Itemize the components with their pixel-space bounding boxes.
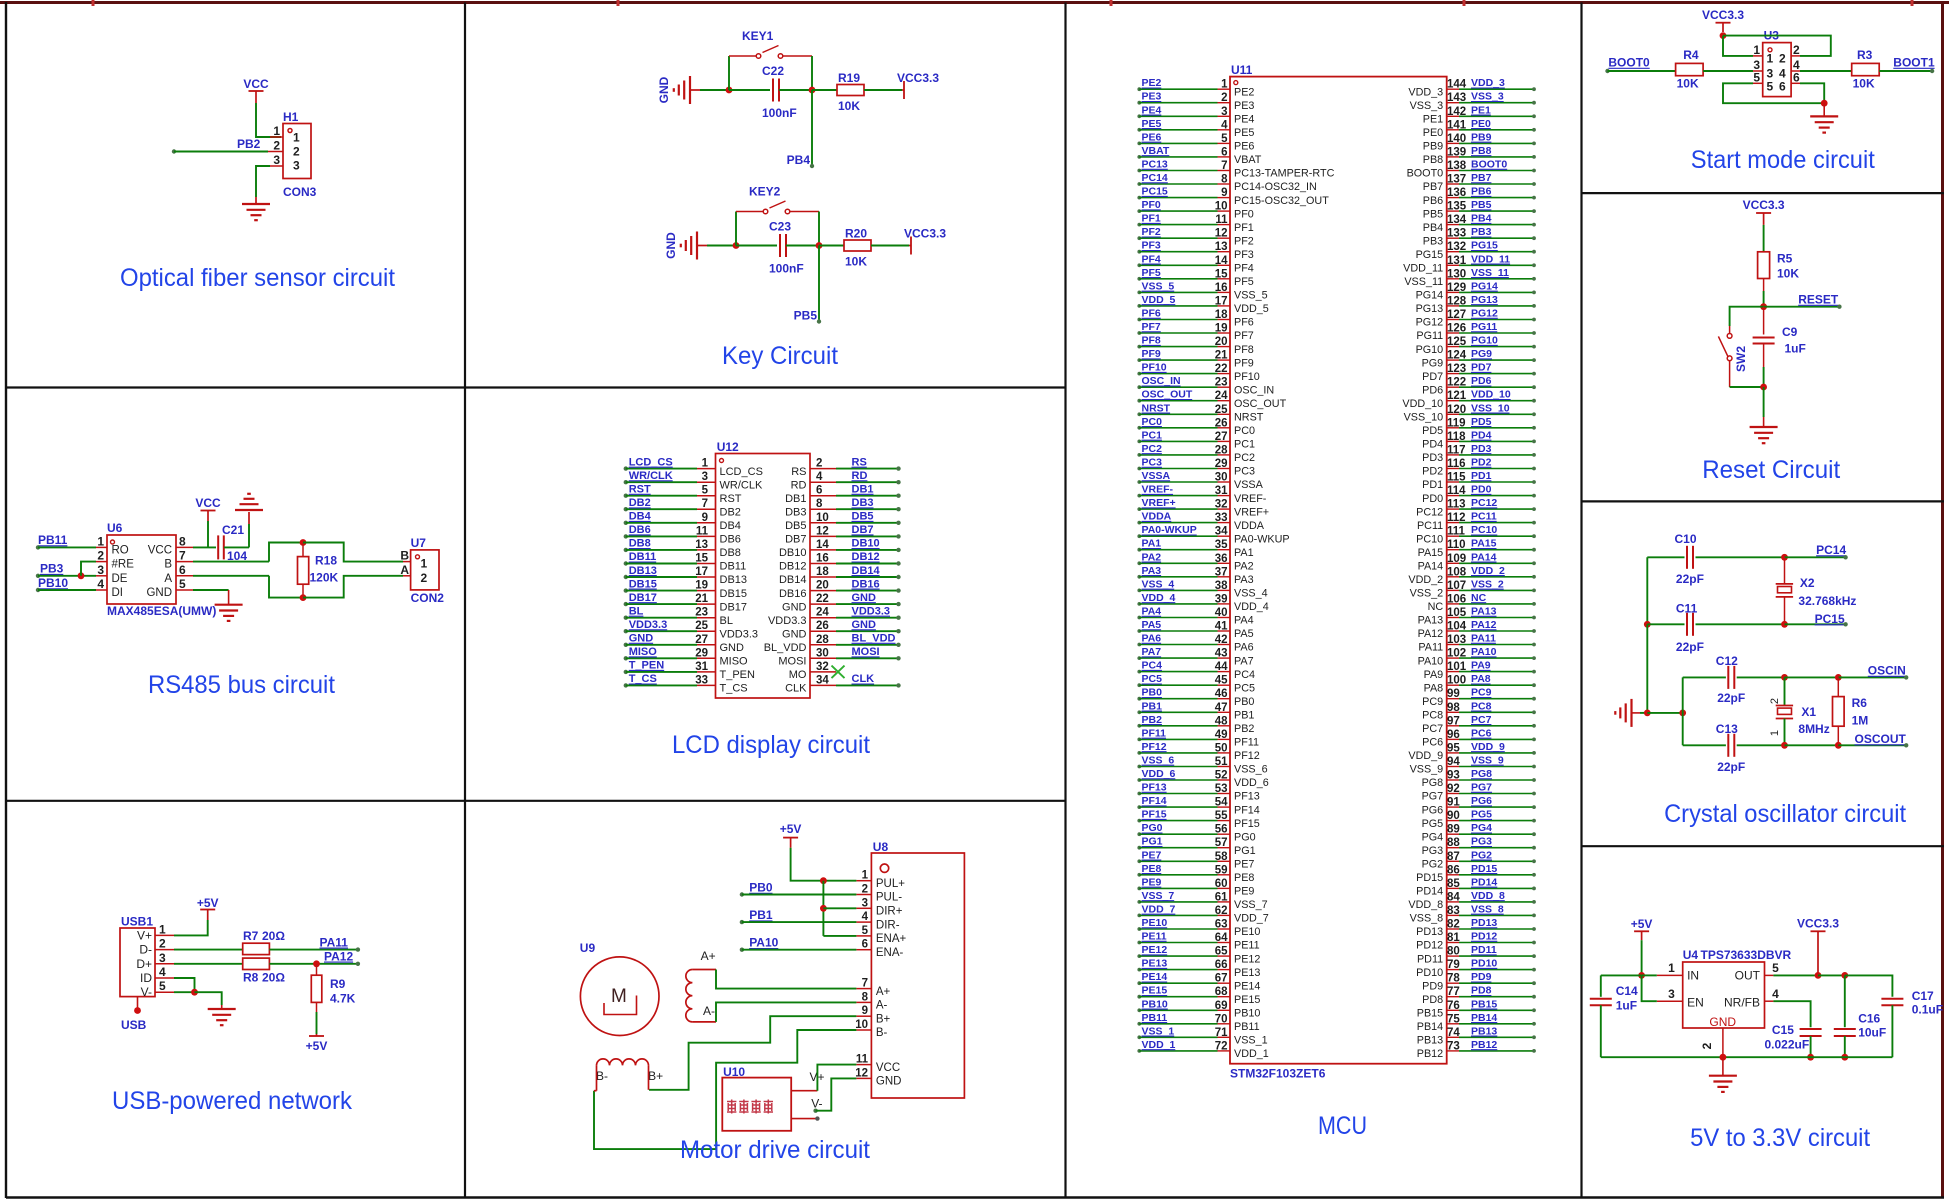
wire pin1 V+ to +5V bbox=[174, 920, 208, 935]
svg-text:B-: B- bbox=[596, 1069, 608, 1083]
svg-text:VCC3.3: VCC3.3 bbox=[904, 227, 946, 241]
svg-text:+5V: +5V bbox=[306, 1039, 328, 1053]
svg-text:1: 1 bbox=[702, 458, 709, 470]
svg-text:10: 10 bbox=[855, 1019, 868, 1031]
svg-text:PC4: PC4 bbox=[1234, 669, 1255, 681]
svg-text:R4: R4 bbox=[1683, 48, 1699, 62]
svg-text:VDD_3: VDD_3 bbox=[1408, 86, 1443, 98]
svg-text:Reset Circuit: Reset Circuit bbox=[1702, 456, 1840, 484]
svg-text:103: 103 bbox=[1447, 634, 1466, 646]
svg-text:34: 34 bbox=[1215, 526, 1228, 538]
svg-text:98: 98 bbox=[1447, 702, 1460, 714]
svg-text:137: 137 bbox=[1447, 174, 1466, 186]
svg-text:102: 102 bbox=[1447, 648, 1466, 660]
svg-text:GND: GND bbox=[852, 592, 877, 604]
svg-text:PC7: PC7 bbox=[1471, 714, 1492, 726]
svg-text:BL_VDD: BL_VDD bbox=[764, 642, 807, 654]
svg-text:PA14: PA14 bbox=[1471, 551, 1497, 563]
svg-text:32: 32 bbox=[1215, 499, 1228, 511]
svg-text:PB5: PB5 bbox=[1423, 208, 1443, 220]
svg-text:PF3: PF3 bbox=[1234, 249, 1254, 261]
junction GND bbox=[1720, 1054, 1727, 1061]
U11 pin 101 PA9 bbox=[1447, 671, 1459, 673]
svg-text:OSCOUT: OSCOUT bbox=[1855, 732, 1907, 746]
svg-text:PD10: PD10 bbox=[1471, 958, 1497, 970]
svg-text:38: 38 bbox=[1215, 580, 1228, 592]
svg-text:VDD_2: VDD_2 bbox=[1471, 565, 1505, 577]
svg-text:RS485 bus circuit: RS485 bus circuit bbox=[148, 671, 335, 699]
svg-text:5: 5 bbox=[1772, 961, 1779, 975]
svg-text:28: 28 bbox=[816, 634, 829, 646]
svg-text:58: 58 bbox=[1215, 851, 1228, 863]
left rail to C14 bbox=[1601, 974, 1642, 976]
svg-text:PG0: PG0 bbox=[1234, 831, 1256, 843]
svg-text:33: 33 bbox=[1215, 512, 1228, 524]
wire junction to resistor bbox=[819, 245, 844, 247]
svg-text:DB14: DB14 bbox=[852, 565, 881, 577]
svg-text:RD: RD bbox=[791, 479, 807, 491]
U11 pin 77 PD8 bbox=[1447, 996, 1459, 998]
svg-text:VDD_1: VDD_1 bbox=[1142, 1039, 1176, 1051]
junction node bbox=[733, 242, 740, 249]
svg-text:PB2: PB2 bbox=[237, 137, 261, 151]
svg-text:PF4: PF4 bbox=[1142, 253, 1161, 265]
svg-text:VREF-: VREF- bbox=[1234, 493, 1267, 505]
junction ground left bbox=[1644, 710, 1651, 717]
svg-text:MCU: MCU bbox=[1318, 1112, 1367, 1140]
svg-text:Key Circuit: Key Circuit bbox=[722, 342, 838, 370]
svg-text:87: 87 bbox=[1447, 851, 1460, 863]
svg-text:PB2: PB2 bbox=[1234, 723, 1254, 735]
svg-text:CLK: CLK bbox=[852, 673, 875, 685]
svg-text:DB2: DB2 bbox=[720, 507, 741, 519]
svg-text:78: 78 bbox=[1447, 973, 1460, 985]
node RESET wire bbox=[1764, 306, 1840, 308]
svg-text:PB5: PB5 bbox=[1471, 199, 1492, 211]
U11 pin 111 PC10 bbox=[1447, 535, 1459, 537]
svg-text:14: 14 bbox=[816, 539, 829, 551]
svg-text:DB15: DB15 bbox=[720, 588, 748, 600]
svg-text:PB1: PB1 bbox=[749, 908, 773, 922]
svg-text:84: 84 bbox=[1447, 891, 1460, 903]
svg-text:PC0: PC0 bbox=[1234, 425, 1255, 437]
svg-text:A+: A+ bbox=[701, 949, 716, 963]
svg-text:VSS_2: VSS_2 bbox=[1471, 578, 1504, 590]
svg-text:PB14: PB14 bbox=[1417, 1021, 1443, 1033]
svg-text:VDD_4: VDD_4 bbox=[1234, 601, 1269, 613]
wire pin5 loop down bbox=[1723, 83, 1824, 103]
wire VCC3.3 to R5 bbox=[1763, 225, 1765, 251]
svg-text:31: 31 bbox=[695, 661, 708, 673]
U11 pin 97 PC7 bbox=[1447, 725, 1459, 727]
svg-text:U12: U12 bbox=[717, 440, 739, 454]
U11 pin 61 VSS_7 bbox=[1137, 900, 1141, 904]
svg-text:3: 3 bbox=[97, 563, 104, 577]
U11 pin 119 PD5 bbox=[1447, 427, 1459, 429]
svg-text:KEY2: KEY2 bbox=[749, 185, 781, 199]
wire bottom rail to U7 pin A bbox=[303, 576, 403, 598]
svg-text:PA11: PA11 bbox=[320, 935, 349, 949]
U11 pin 38 VSS_4 bbox=[1137, 589, 1141, 593]
svg-text:CON2: CON2 bbox=[411, 591, 445, 605]
wire left rail up to top rail bbox=[269, 543, 303, 562]
svg-text:21: 21 bbox=[1215, 350, 1228, 362]
wire V- to U8 pin12 GND bbox=[813, 1109, 817, 1113]
U11 pin 81 PD12 bbox=[1447, 942, 1459, 944]
svg-text:PG9: PG9 bbox=[1422, 357, 1444, 369]
svg-text:VREF+: VREF+ bbox=[1234, 506, 1269, 518]
svg-text:PG4: PG4 bbox=[1471, 822, 1492, 834]
U11 pin 132 PG15 bbox=[1447, 251, 1459, 253]
svg-text:C10: C10 bbox=[1675, 532, 1697, 546]
node OSCOUT wire bbox=[1838, 744, 1906, 746]
svg-text:PE1: PE1 bbox=[1423, 114, 1443, 126]
svg-text:PE15: PE15 bbox=[1234, 994, 1260, 1006]
svg-text:4: 4 bbox=[1772, 987, 1779, 1001]
U11 pin 20 PF8 bbox=[1137, 345, 1141, 349]
junction R6 top bbox=[1835, 674, 1842, 681]
svg-text:PF2: PF2 bbox=[1234, 235, 1254, 247]
svg-text:PG10: PG10 bbox=[1416, 344, 1444, 356]
svg-text:GND: GND bbox=[782, 601, 807, 613]
svg-text:PF12: PF12 bbox=[1234, 750, 1260, 762]
svg-text:T_PEN: T_PEN bbox=[629, 660, 665, 672]
U11 pin 54 PF14 bbox=[1137, 805, 1141, 809]
svg-text:PC15: PC15 bbox=[1815, 612, 1845, 626]
svg-text:USB-powered network: USB-powered network bbox=[112, 1087, 352, 1115]
svg-text:3: 3 bbox=[159, 951, 166, 965]
svg-text:DB17: DB17 bbox=[629, 592, 657, 604]
svg-text:C22: C22 bbox=[762, 64, 784, 78]
svg-text:PF11: PF11 bbox=[1142, 727, 1167, 739]
U11 pin 73 PB12 bbox=[1447, 1050, 1459, 1052]
svg-text:PB9: PB9 bbox=[1471, 131, 1492, 143]
switch SW2 bbox=[1727, 334, 1732, 339]
svg-text:PB11: PB11 bbox=[38, 533, 68, 547]
svg-text:VDD_4: VDD_4 bbox=[1142, 592, 1176, 604]
svg-text:DB2: DB2 bbox=[629, 497, 651, 509]
svg-text:C17: C17 bbox=[1912, 989, 1934, 1003]
U11 pin 57 PG1 bbox=[1137, 846, 1141, 850]
wire VCC to H1 pin1 bbox=[256, 103, 281, 137]
svg-text:NRST: NRST bbox=[1142, 402, 1171, 414]
U11 pin 89 PG4 bbox=[1447, 833, 1459, 835]
svg-text:126: 126 bbox=[1447, 323, 1466, 335]
svg-text:LCD display circuit: LCD display circuit bbox=[672, 731, 870, 759]
wire junction to resistor bbox=[812, 89, 837, 91]
svg-text:PD9: PD9 bbox=[1422, 980, 1443, 992]
U11 pin 71 VSS_1 bbox=[1137, 1035, 1141, 1039]
U11 pin 22 PF10 bbox=[1137, 372, 1141, 376]
wire SW2 to bottom junction bbox=[1729, 361, 1731, 387]
svg-text:RD: RD bbox=[852, 470, 868, 482]
svg-text:22pF: 22pF bbox=[1676, 572, 1704, 586]
resistor R6 1M bbox=[1837, 677, 1839, 696]
svg-text:DB11: DB11 bbox=[720, 561, 747, 573]
U12 pin 33 T_CS bbox=[624, 683, 628, 687]
U11 pin 50 PF12 bbox=[1137, 751, 1141, 755]
U11 pin 122 PD6 bbox=[1447, 386, 1459, 388]
svg-text:C23: C23 bbox=[769, 220, 791, 234]
svg-text:PB3: PB3 bbox=[40, 562, 64, 576]
svg-text:2: 2 bbox=[816, 458, 822, 470]
svg-text:VSS_8: VSS_8 bbox=[1410, 913, 1444, 925]
svg-text:R8: R8 bbox=[243, 971, 259, 985]
junction C12/C13 rail bbox=[1679, 710, 1686, 717]
svg-text:139: 139 bbox=[1447, 146, 1466, 158]
svg-text:B: B bbox=[164, 559, 172, 571]
resistor R9 4.7K bbox=[316, 964, 318, 975]
svg-text:PB8: PB8 bbox=[1471, 145, 1492, 157]
svg-text:PA5: PA5 bbox=[1234, 628, 1254, 640]
svg-text:VDD_3: VDD_3 bbox=[1471, 77, 1505, 89]
svg-text:1uF: 1uF bbox=[1616, 999, 1637, 1013]
svg-text:PG10: PG10 bbox=[1471, 335, 1498, 347]
svg-text:22pF: 22pF bbox=[1717, 760, 1745, 774]
svg-text:PG2: PG2 bbox=[1471, 849, 1492, 861]
svg-text:VDD_11: VDD_11 bbox=[1471, 253, 1510, 265]
wire resistor to VCC3.3 bbox=[871, 245, 909, 247]
svg-text:88: 88 bbox=[1447, 837, 1460, 849]
wire VCC down to pin8 net bbox=[207, 521, 209, 547]
U11 pin 55 PF15 bbox=[1137, 819, 1141, 823]
svg-text:12: 12 bbox=[1215, 228, 1228, 240]
svg-text:PA15: PA15 bbox=[1418, 547, 1444, 559]
svg-text:100nF: 100nF bbox=[762, 106, 797, 120]
U11 pin 9 PC15 bbox=[1137, 196, 1141, 200]
svg-text:VDD3.3: VDD3.3 bbox=[629, 619, 668, 631]
svg-text:1: 1 bbox=[273, 124, 280, 138]
svg-text:U9: U9 bbox=[580, 941, 596, 955]
svg-text:PB15: PB15 bbox=[1417, 1008, 1443, 1020]
svg-text:PA8: PA8 bbox=[1471, 673, 1491, 685]
wire +5V junction to pin1 bbox=[1642, 974, 1657, 976]
svg-text:PD13: PD13 bbox=[1416, 926, 1443, 938]
svg-text:DB8: DB8 bbox=[720, 547, 741, 559]
svg-text:143: 143 bbox=[1447, 92, 1466, 104]
svg-text:26: 26 bbox=[816, 620, 829, 632]
label DC power (Chinese) bbox=[727, 1100, 736, 1114]
svg-text:U8: U8 bbox=[873, 840, 889, 854]
svg-text:PG3: PG3 bbox=[1422, 845, 1444, 857]
svg-text:PD13: PD13 bbox=[1471, 917, 1497, 929]
svg-text:PB0: PB0 bbox=[1234, 696, 1254, 708]
svg-text:8: 8 bbox=[816, 498, 823, 510]
svg-text:55: 55 bbox=[1215, 810, 1228, 822]
svg-text:BL: BL bbox=[720, 615, 733, 627]
svg-text:CON3: CON3 bbox=[283, 185, 317, 199]
svg-text:PE4: PE4 bbox=[1142, 104, 1162, 116]
svg-text:1: 1 bbox=[1753, 43, 1760, 57]
U11 pin 102 PA10 bbox=[1447, 657, 1459, 659]
svg-text:69: 69 bbox=[1215, 1000, 1228, 1012]
svg-text:26: 26 bbox=[1215, 417, 1228, 429]
ground bbox=[1630, 699, 1632, 727]
svg-text:VSSA: VSSA bbox=[1234, 479, 1264, 491]
svg-text:0.1uF: 0.1uF bbox=[1912, 1003, 1943, 1017]
U11 pin 80 PD11 bbox=[1447, 955, 1459, 957]
svg-text:PG4: PG4 bbox=[1422, 831, 1444, 843]
svg-text:MAX485ESA(UMW): MAX485ESA(UMW) bbox=[107, 604, 216, 618]
svg-text:108: 108 bbox=[1447, 566, 1467, 578]
svg-text:+5V: +5V bbox=[197, 896, 219, 910]
U12 pin 31 T_PEN bbox=[624, 670, 628, 674]
svg-text:VDD_5: VDD_5 bbox=[1142, 294, 1176, 306]
svg-text:OSC_IN: OSC_IN bbox=[1142, 375, 1181, 387]
U11 pin 52 VDD_6 bbox=[1137, 778, 1141, 782]
panel grid vertical divider col1/col2 bbox=[464, 3, 466, 1198]
U12 pin 5 RST bbox=[624, 494, 628, 498]
svg-text:C21: C21 bbox=[222, 523, 244, 537]
svg-text:20: 20 bbox=[1215, 336, 1228, 348]
svg-text:ENA-: ENA- bbox=[876, 947, 904, 959]
U11 pin 13 PF3 bbox=[1137, 250, 1141, 254]
U11 pin 128 PG13 bbox=[1447, 305, 1459, 307]
U12 pin 15 DB11 bbox=[624, 561, 628, 565]
svg-text:59: 59 bbox=[1215, 864, 1228, 876]
ground bbox=[1709, 1075, 1737, 1077]
svg-text:PB12: PB12 bbox=[1471, 1039, 1497, 1051]
svg-text:18: 18 bbox=[1215, 309, 1228, 321]
svg-text:PB7: PB7 bbox=[1423, 181, 1443, 193]
svg-text:PD9: PD9 bbox=[1471, 971, 1492, 983]
svg-text:45: 45 bbox=[1215, 675, 1228, 687]
wire C13 to OSCOUT junctions bbox=[1737, 744, 1785, 746]
U11 pin 67 PE14 bbox=[1137, 981, 1141, 985]
svg-text:120K: 120K bbox=[310, 571, 339, 585]
svg-text:PG8: PG8 bbox=[1422, 777, 1444, 789]
svg-text:PD0: PD0 bbox=[1471, 484, 1492, 496]
svg-text:PG6: PG6 bbox=[1422, 804, 1444, 816]
svg-text:RO: RO bbox=[112, 544, 129, 556]
bottom rail wire bbox=[1601, 1056, 1893, 1058]
svg-text:PB4: PB4 bbox=[1423, 222, 1443, 234]
U11 pin 99 PC9 bbox=[1447, 698, 1459, 700]
svg-text:PF13: PF13 bbox=[1142, 782, 1167, 794]
junction X1 bottom bbox=[1781, 742, 1788, 749]
svg-text:GND: GND bbox=[720, 642, 745, 654]
wire U6 pin7 B to left rail bbox=[193, 561, 269, 563]
svg-text:30: 30 bbox=[816, 647, 829, 659]
svg-text:104: 104 bbox=[1447, 621, 1467, 633]
svg-text:62: 62 bbox=[1215, 905, 1228, 917]
svg-text:17: 17 bbox=[695, 566, 708, 578]
svg-text:61: 61 bbox=[1215, 891, 1228, 903]
capacitor C9 1uF bbox=[1763, 307, 1765, 335]
svg-text:PE9: PE9 bbox=[1142, 876, 1162, 888]
U11 pin 44 PC4 bbox=[1137, 670, 1141, 674]
U11 pin 31 VREF- bbox=[1137, 494, 1141, 498]
svg-text:V+: V+ bbox=[137, 928, 152, 942]
wire junction to capacitor bbox=[736, 245, 777, 247]
svg-text:114: 114 bbox=[1447, 485, 1466, 497]
svg-text:PB4: PB4 bbox=[1471, 213, 1492, 225]
svg-text:131: 131 bbox=[1447, 255, 1467, 267]
svg-text:WR/CLK: WR/CLK bbox=[720, 479, 763, 491]
svg-text:PD15: PD15 bbox=[1416, 872, 1443, 884]
svg-text:16: 16 bbox=[816, 553, 829, 565]
svg-text:PF14: PF14 bbox=[1234, 804, 1260, 816]
panel grid vertical divider col2/col3 bbox=[1064, 3, 1066, 1198]
svg-text:PB4: PB4 bbox=[787, 153, 811, 167]
svg-text:Start mode circuit: Start mode circuit bbox=[1691, 146, 1875, 174]
svg-text:PC6: PC6 bbox=[1471, 727, 1492, 739]
svg-text:82: 82 bbox=[1447, 919, 1460, 931]
svg-text:IN: IN bbox=[1687, 969, 1699, 983]
svg-text:PB13: PB13 bbox=[1417, 1035, 1443, 1047]
svg-text:9: 9 bbox=[862, 1005, 868, 1017]
svg-text:PG8: PG8 bbox=[1471, 768, 1492, 780]
svg-text:122: 122 bbox=[1447, 377, 1466, 389]
svg-text:DB10: DB10 bbox=[779, 547, 807, 559]
svg-text:DB4: DB4 bbox=[629, 511, 652, 523]
svg-text:PC10: PC10 bbox=[1416, 533, 1443, 545]
svg-text:VSS_5: VSS_5 bbox=[1234, 290, 1268, 302]
svg-text:DB17: DB17 bbox=[720, 601, 748, 613]
svg-text:22: 22 bbox=[816, 593, 829, 605]
svg-text:DI: DI bbox=[112, 587, 124, 599]
U12 pin 1 LCD_CS bbox=[624, 466, 628, 470]
svg-text:PC1: PC1 bbox=[1142, 429, 1163, 441]
rail for C12 C13 bbox=[1682, 677, 1684, 745]
svg-text:PA10: PA10 bbox=[1471, 646, 1497, 658]
rail wire pins 1-3-5 bbox=[822, 881, 824, 936]
svg-text:VSS_6: VSS_6 bbox=[1234, 764, 1268, 776]
junction pin5 bbox=[191, 989, 198, 996]
svg-text:PF7: PF7 bbox=[1234, 330, 1254, 342]
svg-text:97: 97 bbox=[1447, 715, 1460, 727]
svg-text:TPS73633DBVR: TPS73633DBVR bbox=[1701, 948, 1792, 962]
junction C15 bottom bbox=[1807, 1054, 1814, 1061]
junction node 2 bbox=[816, 242, 823, 249]
svg-text:PB7: PB7 bbox=[1471, 172, 1492, 184]
svg-text:112: 112 bbox=[1447, 512, 1466, 524]
svg-text:+5V: +5V bbox=[780, 822, 802, 836]
U11 pin 82 PD13 bbox=[1447, 928, 1459, 930]
svg-text:100: 100 bbox=[1447, 675, 1466, 687]
junction PB3/#RE bbox=[78, 572, 85, 579]
svg-text:PC4: PC4 bbox=[1142, 660, 1163, 672]
svg-text:OSCIN: OSCIN bbox=[1868, 664, 1906, 678]
node PA12 wire bbox=[269, 963, 358, 965]
U11 pin 88 PG3 bbox=[1447, 847, 1459, 849]
U11 pin 17 VDD_5 bbox=[1137, 304, 1141, 308]
svg-text:PA1: PA1 bbox=[1234, 547, 1254, 559]
svg-text:127: 127 bbox=[1447, 309, 1466, 321]
svg-text:RS: RS bbox=[852, 456, 867, 468]
U11 pin 12 PF2 bbox=[1137, 236, 1141, 240]
svg-text:PA15: PA15 bbox=[1471, 538, 1497, 550]
junction pin3 rail bbox=[820, 905, 827, 912]
svg-text:83: 83 bbox=[1447, 905, 1460, 917]
wire junction to pin2 bbox=[81, 562, 96, 576]
svg-text:VSS_3: VSS_3 bbox=[1471, 91, 1504, 103]
U11 pin 30 VSSA bbox=[1137, 480, 1141, 484]
svg-text:DE: DE bbox=[112, 573, 128, 585]
svg-text:DB14: DB14 bbox=[779, 574, 807, 586]
svg-text:49: 49 bbox=[1215, 729, 1228, 741]
svg-text:23: 23 bbox=[1215, 377, 1228, 389]
svg-text:1: 1 bbox=[1221, 79, 1228, 91]
U12 pin 7 DB2 bbox=[624, 507, 628, 511]
svg-text:Crystal oscillator circuit: Crystal oscillator circuit bbox=[1664, 800, 1906, 828]
svg-text:3: 3 bbox=[1221, 106, 1227, 118]
svg-text:PB9: PB9 bbox=[1423, 141, 1443, 153]
svg-text:8: 8 bbox=[1221, 174, 1228, 186]
svg-text:PE13: PE13 bbox=[1234, 967, 1260, 979]
svg-text:PD7: PD7 bbox=[1471, 362, 1492, 374]
svg-text:PF12: PF12 bbox=[1142, 741, 1167, 753]
